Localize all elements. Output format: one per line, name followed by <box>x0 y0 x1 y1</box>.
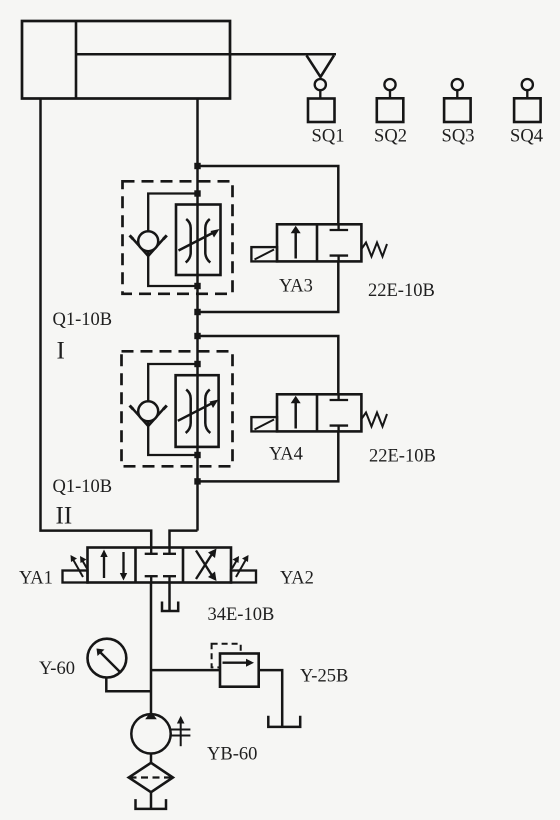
svg-text:YA3: YA3 <box>279 277 313 297</box>
svg-text:II: II <box>56 503 73 530</box>
solenoid valve 22E-10B lower (YA4) <box>277 394 361 431</box>
wire from valve YA4 bottom <box>198 431 339 481</box>
svg-text:Q1-10B: Q1-10B <box>53 310 113 330</box>
svg-text:YA4: YA4 <box>269 445 303 465</box>
junction dots <box>194 163 200 485</box>
limit switch SQ1 stem <box>319 90 321 98</box>
right position crossed arrows <box>196 553 213 580</box>
limit switch SQ1 body <box>308 99 335 123</box>
relief valve Y-25B body <box>220 654 259 687</box>
svg-text:SQ2: SQ2 <box>374 127 407 147</box>
solenoid coil YA3 <box>251 247 277 261</box>
cam dog on rod <box>307 55 335 77</box>
pump adjust symbol <box>171 729 191 731</box>
check valve I <box>133 239 149 257</box>
center position blocked ports <box>150 548 152 554</box>
spring YA3 valve <box>361 243 387 257</box>
svg-text:34E-10B: 34E-10B <box>208 605 275 625</box>
throttle valve II <box>176 375 219 447</box>
directional valve 34E-10B body <box>88 548 232 583</box>
svg-text:Y-60: Y-60 <box>39 659 75 679</box>
check valve II <box>133 409 149 427</box>
wire P line valve to pump <box>150 583 153 714</box>
wire main line from cylinder rod port <box>196 99 199 531</box>
piston rod <box>76 53 336 56</box>
svg-text:SQ4: SQ4 <box>510 127 543 147</box>
limit switch SQ3 body <box>444 98 471 122</box>
tank under relief valve <box>268 716 300 727</box>
wire gauge to P line <box>106 678 151 692</box>
tank main <box>136 799 167 809</box>
svg-text:I: I <box>57 338 65 365</box>
svg-text:Y-25B: Y-25B <box>300 667 348 687</box>
limit switch SQ4 stem <box>526 90 528 98</box>
svg-text:YA1: YA1 <box>19 569 53 589</box>
solenoid YA2 <box>231 571 256 583</box>
solenoid coil YA4 <box>251 417 277 431</box>
limit switch SQ2 body <box>377 98 404 122</box>
svg-text:22E-10B: 22E-10B <box>369 447 436 467</box>
spring YA4 valve <box>361 413 387 427</box>
svg-text:YA2: YA2 <box>280 569 314 589</box>
limit switch SQ2 roller <box>384 79 395 90</box>
svg-text:SQ3: SQ3 <box>442 127 475 147</box>
cylinder body <box>22 21 230 99</box>
wire relief valve to tank <box>259 670 283 727</box>
tank under valve T port <box>168 583 171 612</box>
svg-text:Q1-10B: Q1-10B <box>53 477 113 497</box>
wire filter to tank <box>150 792 153 809</box>
wire pump to filter <box>150 754 153 764</box>
solenoid YA1 <box>63 571 88 583</box>
wire to valve YA4 top <box>198 336 339 394</box>
limit switch SQ4 body <box>514 98 541 122</box>
wire to valve YA3 top <box>198 166 339 224</box>
limit switch SQ2 stem <box>389 90 391 98</box>
solenoid valve 22E-10B upper (YA3) <box>277 224 361 261</box>
wire main line jog to valve port B <box>170 531 198 548</box>
wire bypass loop I <box>148 194 197 287</box>
speed valve assembly II enclosure <box>122 351 233 466</box>
svg-text:YB-60: YB-60 <box>207 745 257 765</box>
wire P line to relief valve <box>151 669 220 672</box>
filter <box>129 763 173 792</box>
limit switch SQ4 roller <box>522 79 533 90</box>
limit switch SQ1 roller <box>315 79 326 90</box>
wire left cylinder port to valve port A <box>41 99 152 548</box>
limit switch SQ3 stem <box>456 90 458 98</box>
svg-text:SQ1: SQ1 <box>312 127 345 147</box>
piston <box>75 21 78 99</box>
speed valve assembly I enclosure <box>123 181 233 293</box>
throttle valve I <box>176 205 221 276</box>
pump YB-60 <box>131 714 170 753</box>
limit switch SQ3 roller <box>452 79 463 90</box>
pressure gauge Y-60 <box>88 639 127 678</box>
left position arrows <box>103 553 105 578</box>
wire bypass loop II <box>148 364 197 455</box>
wire from valve YA3 bottom <box>198 261 339 312</box>
svg-text:22E-10B: 22E-10B <box>368 281 435 301</box>
relief valve Y-25B pilot box <box>212 644 241 668</box>
